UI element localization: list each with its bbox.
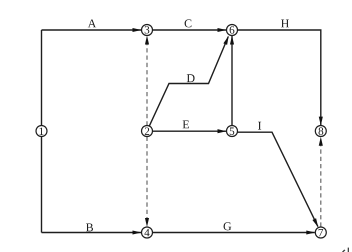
arrowhead dummy 2-4 into node 4 [145,218,149,227]
node 6 digit [230,26,235,33]
wire activity I node 5 right then diagonal to node 7 [238,132,318,226]
dummy dashed node 2 to node 3 [146,38,148,126]
arrowhead C into node 6 [218,28,227,32]
node 7 [315,227,326,238]
node 2 digit [145,127,149,134]
wire left vertical from node 1 up/down (1-3 and 1-4 risers) [41,30,43,233]
dummy dashed node 7 to node 8 [320,139,322,227]
node 8 [315,126,326,137]
wire activity A horizontal 41.5,30 to node 3 [42,29,142,31]
node 6 [227,25,238,36]
arrowhead F into node 6 [230,36,234,45]
label C [185,19,192,27]
node 5 digit [230,128,235,135]
label B [86,224,93,232]
node 1 [36,126,47,137]
cropped text fragment bottom-right [342,250,346,252]
node 2 [142,126,153,137]
node 4 digit [144,229,149,236]
dummy dashed node 2 to node 4 [146,137,148,224]
node 3 [142,25,153,36]
label I [258,122,261,130]
node 7 digit [319,229,324,236]
arrowhead A into node 3 [133,28,142,32]
wire activity B horizontal 41.5,232.5 to node 4 [42,232,142,234]
node 8 digit [319,127,324,135]
arrowhead dummy 7-8 into node 8 [319,137,323,146]
arrowhead I into node 7 [312,218,318,227]
arrowhead H into node 8 [319,117,323,126]
arrowhead dummy 2-3 into node 3 [145,36,149,45]
label G [224,222,232,230]
wire activity D node 2 dogleg to node 6 [147,37,228,132]
arrowhead E into node 5 [218,129,227,133]
arrowhead D into node 6 [223,36,228,45]
label D [187,74,195,82]
label E [183,121,189,129]
node 3 digit [145,26,150,33]
arrowhead B into node 4 [133,230,142,234]
wire activity H node 6 right then down to node 8 [238,30,321,125]
node 5 [227,126,238,137]
wire activity C node 3 to node 6 [153,29,227,31]
label A [88,19,96,27]
label H [281,20,289,28]
wire activity F node 5 up to node 6 [231,36,233,126]
node 1 digit [40,128,44,135]
wire activity E node 2 to node 5 [153,130,227,132]
node 4 [142,227,153,238]
arrowhead G into node 7 [306,230,315,234]
wire activity G node 4 to node 7 [153,232,315,234]
